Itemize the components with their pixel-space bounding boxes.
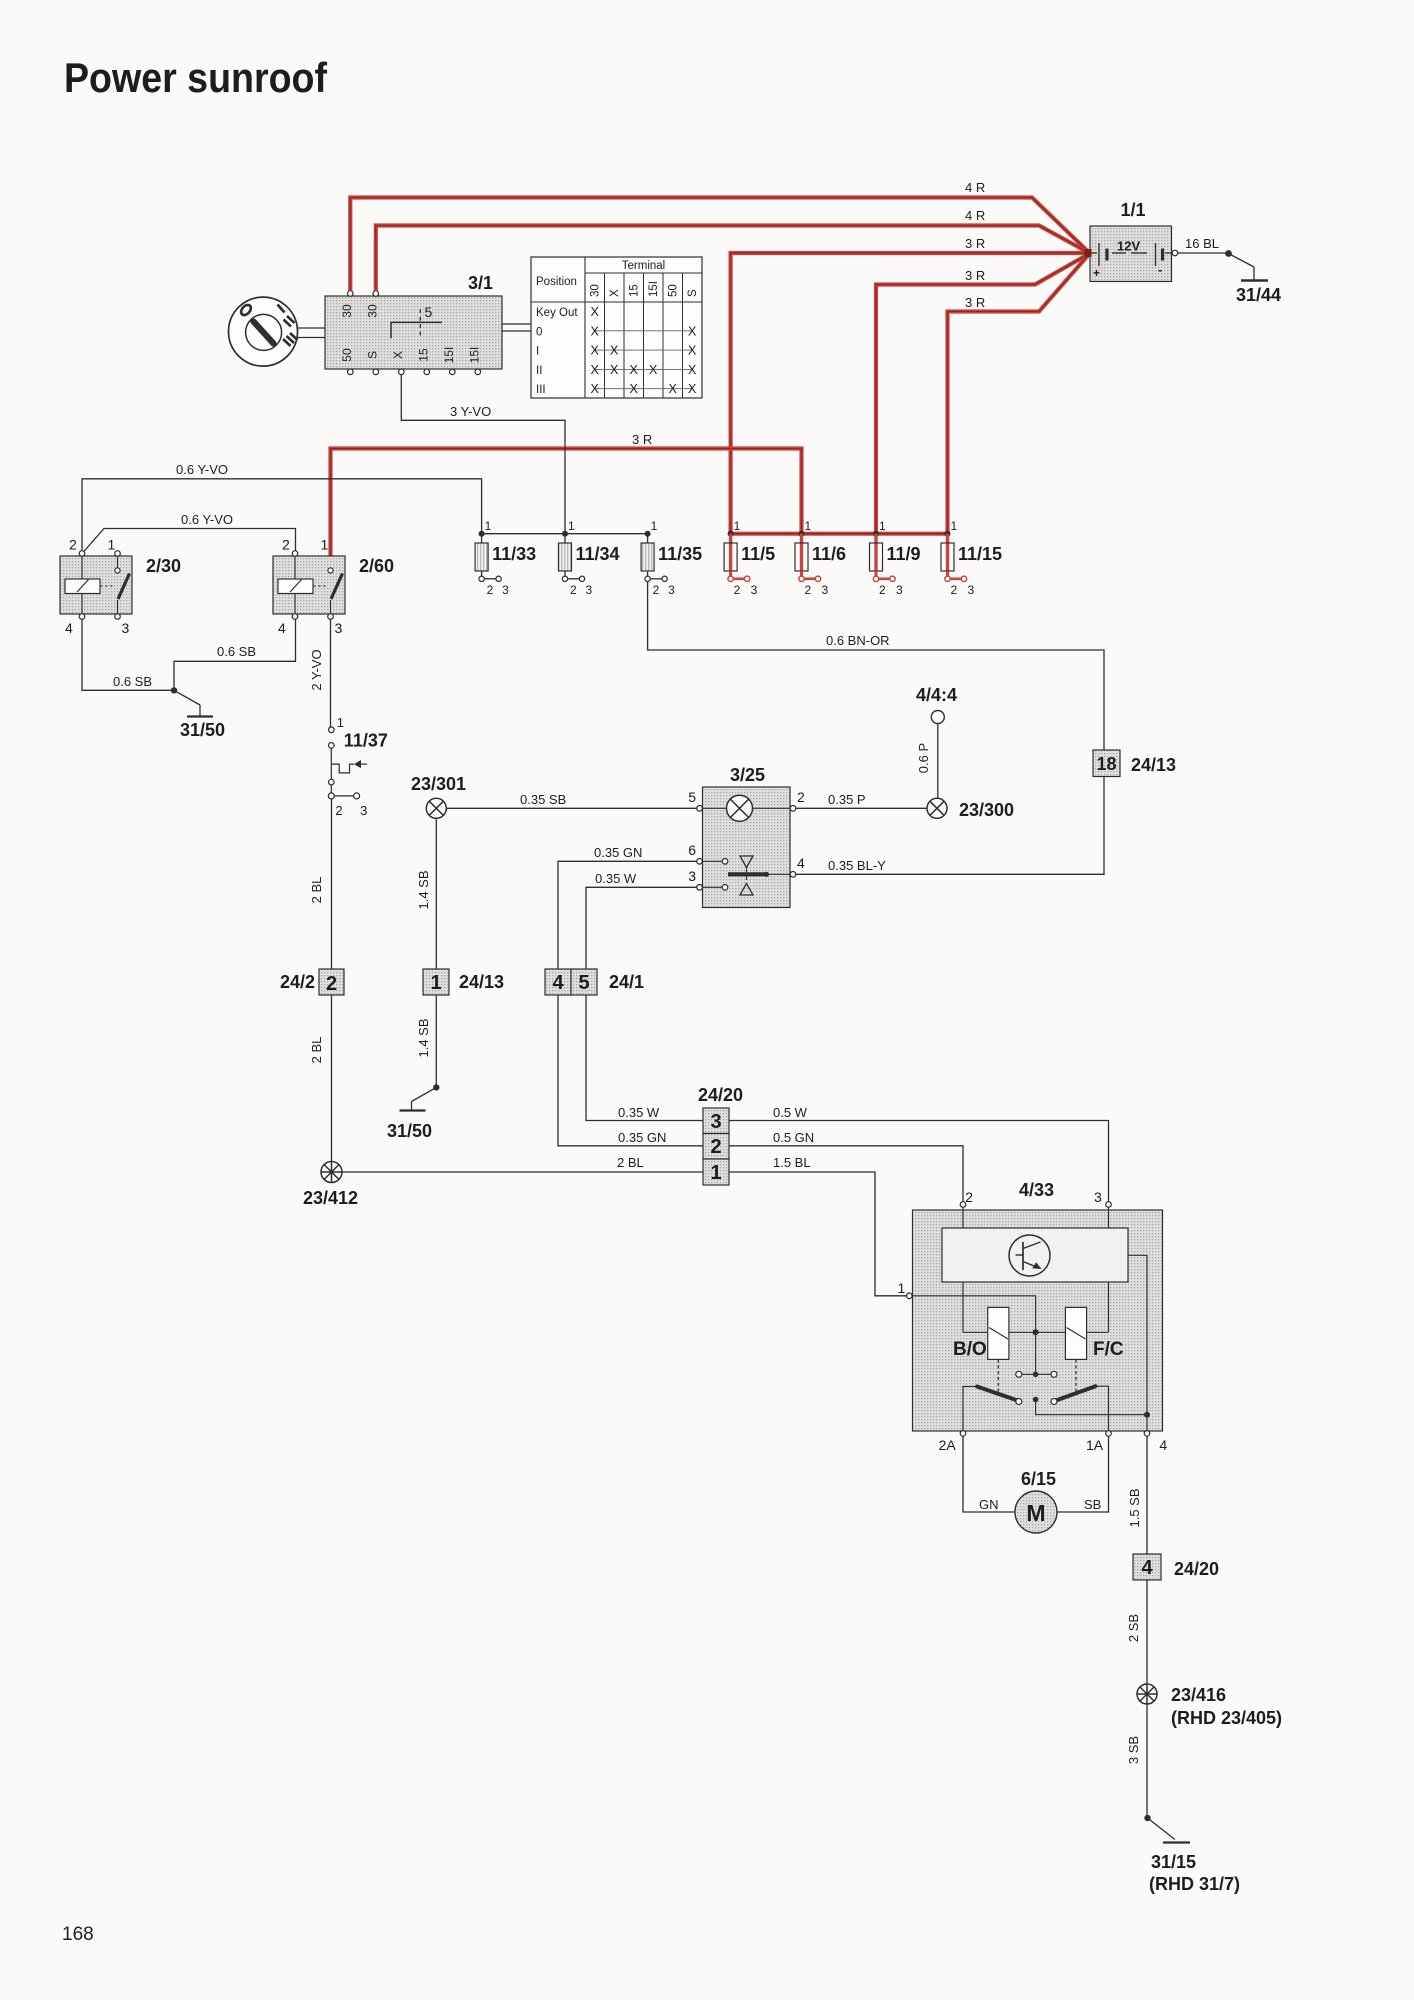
svg-text:F/C: F/C: [1093, 1339, 1124, 1360]
svg-text:11/5: 11/5: [741, 544, 775, 564]
ground 31/50 (relays): [171, 687, 225, 740]
svg-text:3 Y-VO: 3 Y-VO: [450, 404, 491, 419]
svg-text:4: 4: [797, 855, 805, 871]
svg-text:15: 15: [629, 284, 641, 297]
node pin 1: [907, 1293, 913, 1299]
svg-text:2 SB: 2 SB: [1126, 1614, 1141, 1642]
contact blade left: [977, 1387, 1019, 1402]
connector 24/2 pin 2: [280, 969, 344, 995]
svg-text:3: 3: [122, 620, 130, 636]
node battery positive junction: [1085, 249, 1092, 257]
svg-text:24/1: 24/1: [609, 972, 644, 992]
svg-text:X: X: [649, 363, 658, 377]
svg-text:+: +: [1093, 266, 1100, 280]
wire 2 Y-VO: [330, 619, 332, 727]
wire contact common to pin 4: [1036, 1400, 1147, 1431]
svg-text:1: 1: [734, 519, 741, 533]
svg-text:4: 4: [65, 620, 73, 636]
ignition position table: [531, 257, 702, 398]
svg-text:2: 2: [805, 583, 812, 597]
svg-text:3 R: 3 R: [965, 236, 985, 251]
wire 0.6 SB (relay 2/30 pin 4): [82, 619, 171, 690]
svg-text:X: X: [591, 324, 600, 338]
svg-text:1: 1: [337, 715, 344, 730]
lamp 23/300: [927, 798, 1014, 820]
svg-text:15: 15: [417, 348, 431, 362]
wire 1.5 BL (24/20 to 4/33 pin 1): [729, 1172, 907, 1296]
connector 24/13 pin 1: [423, 969, 504, 995]
svg-text:S: S: [687, 289, 699, 297]
svg-text:0.6 Y-VO: 0.6 Y-VO: [176, 462, 228, 477]
svg-text:X: X: [609, 289, 621, 297]
wire 0.5 W (24/20 to 4/33 pin 3): [729, 1121, 1109, 1202]
svg-text:3: 3: [502, 583, 509, 597]
wire 3 SB: [1146, 1704, 1148, 1818]
svg-text:1.4 SB: 1.4 SB: [416, 870, 431, 909]
svg-text:50: 50: [668, 284, 680, 297]
svg-text:Position: Position: [536, 276, 577, 288]
svg-text:2: 2: [69, 537, 77, 553]
svg-text:2/60: 2/60: [359, 556, 394, 576]
wire 0.6 P: [937, 724, 939, 799]
svg-text:2: 2: [335, 803, 342, 818]
svg-text:11/37: 11/37: [344, 731, 388, 751]
wire common contact: [1035, 1332, 1037, 1374]
svg-text:3: 3: [751, 583, 758, 597]
svg-text:0.6 SB: 0.6 SB: [113, 674, 152, 689]
node pin 2: [960, 1202, 966, 1208]
transistor symbol: [1009, 1235, 1050, 1276]
svg-text:5: 5: [425, 304, 433, 320]
svg-text:11/9: 11/9: [887, 544, 921, 564]
svg-text:1: 1: [951, 519, 958, 533]
svg-text:18: 18: [1096, 754, 1116, 774]
svg-text:0.6 BN-OR: 0.6 BN-OR: [826, 633, 890, 648]
svg-text:X: X: [610, 344, 619, 358]
svg-text:0.35 W: 0.35 W: [618, 1105, 660, 1120]
sunroof motor assembly 4/33: [913, 1180, 1163, 1431]
svg-text:2: 2: [710, 1136, 721, 1158]
svg-text:1.5 BL: 1.5 BL: [773, 1155, 811, 1170]
connector 24/20 pins 3 2 1: [698, 1085, 743, 1185]
wire 0.35 W (24/1 to 24/20): [586, 996, 703, 1121]
svg-text:0.6 P: 0.6 P: [916, 743, 931, 773]
svg-text:2: 2: [326, 973, 337, 995]
svg-text:5: 5: [578, 972, 589, 994]
svg-text:5: 5: [688, 789, 696, 805]
svg-text:23/301: 23/301: [411, 774, 466, 794]
svg-text:15I: 15I: [468, 347, 482, 364]
wire 2 SB: [1146, 1580, 1148, 1684]
svg-text:1: 1: [651, 519, 658, 533]
svg-text:50: 50: [340, 348, 354, 362]
svg-text:1: 1: [108, 537, 116, 553]
connector 4/4:4: [916, 685, 957, 724]
svg-text:4: 4: [1141, 1557, 1153, 1579]
wire 0.35 SB: [446, 807, 696, 809]
svg-text:24/13: 24/13: [1131, 755, 1176, 775]
svg-text:1: 1: [430, 972, 441, 994]
wire red fuse bus: [731, 532, 948, 536]
svg-text:2 BL: 2 BL: [309, 1037, 324, 1064]
relay 2/30: [60, 537, 181, 637]
svg-text:2: 2: [951, 583, 958, 597]
svg-text:4 R: 4 R: [965, 180, 985, 195]
wire SB (1A to motor): [1057, 1436, 1109, 1512]
wire 1.5 SB: [1146, 1436, 1148, 1553]
svg-text:3: 3: [668, 583, 675, 597]
svg-text:23/300: 23/300: [959, 800, 1014, 820]
svg-text:M: M: [1026, 1500, 1045, 1526]
ground 31/15: [1144, 1815, 1240, 1894]
svg-text:X: X: [591, 363, 600, 377]
svg-text:X: X: [591, 305, 600, 319]
node pin 4: [1144, 1431, 1150, 1437]
svg-text:2/30: 2/30: [146, 556, 181, 576]
connector 24/20 pin 4: [1133, 1554, 1219, 1580]
svg-text:3: 3: [896, 583, 903, 597]
ignition key symbol: [229, 297, 298, 366]
svg-text:1A: 1A: [1086, 1437, 1104, 1453]
svg-text:3: 3: [360, 803, 367, 818]
connector 24/1 pins 4 5: [545, 969, 644, 995]
svg-text:1: 1: [879, 519, 886, 533]
svg-text:31/50: 31/50: [180, 720, 225, 740]
fuse 11/9: [870, 519, 921, 597]
svg-text:23/416: 23/416: [1171, 1685, 1226, 1705]
wire 1.4 SB (24/13 to ground): [435, 996, 437, 1088]
svg-text:24/20: 24/20: [698, 1085, 743, 1105]
wire 16 BL: [1172, 250, 1178, 256]
svg-text:X: X: [591, 382, 600, 396]
svg-text:4: 4: [278, 620, 286, 636]
svg-text:0.35 W: 0.35 W: [595, 871, 637, 886]
svg-text:2 BL: 2 BL: [617, 1155, 644, 1170]
svg-text:3: 3: [586, 583, 593, 597]
motor 6/15: [1015, 1469, 1057, 1533]
svg-text:SB: SB: [1084, 1497, 1101, 1512]
svg-text:3: 3: [335, 620, 343, 636]
wire 2 BL (lamp to 24/20): [342, 1171, 703, 1173]
svg-text:0.35 BL-Y: 0.35 BL-Y: [828, 858, 886, 873]
svg-text:2: 2: [653, 583, 660, 597]
svg-text:2: 2: [965, 1189, 973, 1205]
relay 2/60: [273, 537, 394, 637]
wire 2 BL (24/2 to lamp 23/412): [331, 996, 333, 1162]
wire 0.6 BN-OR: [648, 582, 1104, 750]
svg-text:2: 2: [487, 583, 494, 597]
svg-text:X: X: [688, 382, 697, 396]
svg-text:3: 3: [688, 868, 696, 884]
solenoid B/O: [953, 1307, 1009, 1360]
svg-text:2: 2: [734, 583, 741, 597]
node pin 1A: [1106, 1431, 1112, 1437]
svg-text:11/6: 11/6: [812, 544, 846, 564]
svg-text:11/35: 11/35: [658, 544, 702, 564]
lamp 23/301: [411, 774, 466, 818]
svg-text:2: 2: [879, 583, 886, 597]
svg-text:1.4 SB: 1.4 SB: [416, 1018, 431, 1057]
svg-text:Power sunroof: Power sunroof: [64, 54, 328, 101]
ignition switch 3/1: [325, 273, 502, 375]
node pin 3: [1106, 1202, 1112, 1208]
fuse 11/15: [941, 519, 1002, 597]
svg-text:4/33: 4/33: [1019, 1180, 1054, 1200]
lamp 23/412: [303, 1162, 358, 1209]
wire pin1 to solenoid node: [912, 1296, 1035, 1333]
svg-text:X: X: [630, 382, 639, 396]
wire 0.35 BL-Y: [796, 777, 1104, 874]
svg-text:I: I: [536, 346, 539, 358]
wire 3 R (fuse 11/15 feed): [948, 254, 1090, 534]
svg-text:II: II: [536, 365, 542, 377]
svg-text:4: 4: [1159, 1437, 1167, 1453]
wire 3 R (fuse 11/9 feed): [876, 254, 1089, 534]
svg-text:X: X: [669, 382, 678, 396]
wire 0.5 GN (24/20 to 4/33 pin 2): [729, 1146, 963, 1202]
svg-text:III: III: [536, 384, 546, 396]
wire 0.35 P: [796, 807, 927, 809]
svg-text:GN: GN: [979, 1497, 999, 1512]
svg-text:30: 30: [366, 304, 380, 318]
svg-text:S: S: [366, 351, 380, 359]
svg-text:X: X: [630, 363, 639, 377]
wire GN (2A to motor): [963, 1436, 1015, 1512]
svg-text:30: 30: [590, 284, 602, 297]
svg-text:3 R: 3 R: [965, 295, 985, 310]
svg-text:1: 1: [568, 519, 575, 533]
fuse 11/5: [724, 519, 775, 597]
wire 3 Y-VO (ignition X to fuse 11/34): [401, 375, 565, 534]
sunroof switch 3/25: [688, 765, 805, 908]
svg-text:1/1: 1/1: [1121, 200, 1146, 220]
svg-text:3: 3: [1094, 1189, 1102, 1205]
svg-text:X: X: [391, 351, 405, 359]
svg-text:2 BL: 2 BL: [309, 877, 324, 904]
svg-text:4 R: 4 R: [965, 208, 985, 223]
svg-text:24/13: 24/13: [459, 972, 504, 992]
svg-text:X: X: [591, 344, 600, 358]
svg-text:3 SB: 3 SB: [1126, 1736, 1141, 1764]
svg-text:3: 3: [968, 583, 975, 597]
svg-text:1: 1: [485, 519, 492, 533]
wire 0.35 W (3/25 to 24/1): [586, 887, 697, 968]
fuse 11/34: [559, 519, 620, 597]
svg-text:3/25: 3/25: [730, 765, 765, 785]
svg-text:3 R: 3 R: [965, 268, 985, 283]
svg-text:X: X: [688, 324, 697, 338]
fuse 11/33: [475, 519, 536, 597]
wire black fuse bus: [482, 533, 648, 535]
svg-text:11/34: 11/34: [576, 544, 620, 564]
svg-text:11/33: 11/33: [492, 544, 536, 564]
svg-text:24/2: 24/2: [280, 972, 315, 992]
electronics module: [942, 1228, 1128, 1282]
svg-text:X: X: [610, 363, 619, 377]
svg-text:0.35 GN: 0.35 GN: [594, 845, 642, 860]
wire 4 R (ignition 30 b): [376, 226, 1089, 292]
wire 0.35 GN (3/25 to 24/1): [558, 861, 697, 968]
svg-text:4/4:4: 4/4:4: [916, 685, 957, 705]
svg-text:1: 1: [321, 537, 329, 553]
svg-text:23/412: 23/412: [303, 1188, 358, 1208]
ground 31/44: [1225, 250, 1281, 305]
svg-text:0.35 GN: 0.35 GN: [618, 1130, 666, 1145]
svg-text:3: 3: [822, 583, 829, 597]
svg-text:31/15: 31/15: [1151, 1852, 1196, 1872]
svg-text:(RHD 31/7): (RHD 31/7): [1149, 1874, 1240, 1894]
svg-text:0.5 GN: 0.5 GN: [773, 1130, 814, 1145]
svg-text:15I: 15I: [442, 347, 456, 364]
lamp 23/416: [1137, 1684, 1282, 1728]
wire 4 R (ignition 30 a): [350, 198, 1089, 292]
svg-text:2: 2: [282, 537, 290, 553]
svg-text:3/1: 3/1: [468, 273, 493, 293]
wire key linkage: [298, 327, 325, 329]
node pin 2A: [960, 1431, 966, 1437]
contact blade right: [1055, 1386, 1096, 1401]
svg-text:2 Y-VO: 2 Y-VO: [309, 649, 324, 690]
svg-text:X: X: [688, 363, 697, 377]
svg-text:6/15: 6/15: [1021, 1469, 1056, 1489]
svg-text:31/44: 31/44: [1236, 285, 1281, 305]
svg-text:Terminal: Terminal: [622, 260, 665, 272]
svg-text:(RHD 23/405): (RHD 23/405): [1171, 1708, 1282, 1728]
fuse 11/6: [795, 519, 846, 597]
svg-text:X: X: [688, 344, 697, 358]
svg-text:3 R: 3 R: [632, 432, 652, 447]
wire contact to 2A: [963, 1387, 977, 1431]
fuse 11/35: [641, 519, 702, 597]
wire 0.6 SB (relay 2/60 pin 4): [174, 619, 296, 687]
svg-text:0.35 SB: 0.35 SB: [520, 792, 566, 807]
connector 24/13 pin 18: [1093, 750, 1176, 777]
svg-text:2: 2: [570, 583, 577, 597]
wire solenoid feeds: [962, 1282, 964, 1332]
wire 3 R (relay 2/60 to fuse 11/6): [331, 449, 802, 571]
ground 31/50 (instrument): [387, 1084, 439, 1141]
circuit breaker 11/37: [328, 715, 388, 818]
svg-text:16 BL: 16 BL: [1185, 236, 1219, 251]
svg-text:168: 168: [62, 1924, 94, 1945]
svg-text:0.5 W: 0.5 W: [773, 1105, 808, 1120]
solenoid plunger links: [997, 1360, 999, 1393]
wire switch-table linkage: [502, 323, 531, 325]
svg-text:1: 1: [898, 1280, 906, 1296]
wire 3 R (fuse 11/5 feed): [731, 253, 1090, 534]
wire 2 BL (breaker to 24/2): [331, 799, 333, 969]
svg-text:Key Out: Key Out: [536, 307, 578, 319]
svg-text:30: 30: [340, 304, 354, 318]
wire 0.35 GN (24/1 to 24/20): [558, 996, 703, 1146]
svg-text:0.35 P: 0.35 P: [828, 792, 866, 807]
svg-text:B/O: B/O: [953, 1339, 987, 1360]
svg-text:4: 4: [552, 972, 564, 994]
solenoid F/C: [1065, 1307, 1123, 1360]
svg-text:1: 1: [805, 519, 812, 533]
wire feedback to electronics: [1128, 1255, 1147, 1414]
svg-text:31/50: 31/50: [387, 1121, 432, 1141]
svg-text:0.6 Y-VO: 0.6 Y-VO: [181, 512, 233, 527]
svg-text:2: 2: [797, 789, 805, 805]
svg-text:0: 0: [536, 326, 542, 338]
svg-text:1: 1: [710, 1162, 721, 1184]
svg-text:1.5 SB: 1.5 SB: [1127, 1488, 1142, 1527]
svg-text:3: 3: [710, 1111, 721, 1133]
wire contact to 1A: [1096, 1386, 1109, 1431]
svg-text:-: -: [1158, 262, 1162, 277]
svg-text:0.6 SB: 0.6 SB: [217, 644, 256, 659]
wire 1.4 SB (lamp to 24/13): [435, 818, 437, 968]
svg-text:2A: 2A: [939, 1437, 957, 1453]
svg-text:6: 6: [688, 842, 696, 858]
battery 1/1: [1090, 200, 1172, 282]
wire 0.6 Y-VO (relay 2/30 to fuse 11/33): [82, 479, 482, 551]
svg-text:24/20: 24/20: [1174, 1559, 1219, 1579]
svg-text:11/15: 11/15: [958, 544, 1002, 564]
wire 0.6 Y-VO (relay 2/30 to relay 2/60): [83, 529, 296, 553]
svg-text:12V: 12V: [1117, 239, 1140, 254]
svg-text:15I: 15I: [648, 281, 660, 297]
